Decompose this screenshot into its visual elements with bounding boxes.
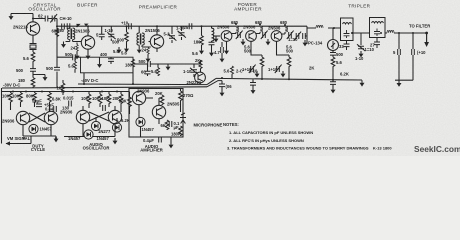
transistor Q3 2N1506 xyxy=(150,35,163,48)
ground base a xyxy=(214,36,219,42)
wire Q4 base xyxy=(213,35,220,37)
ground G8 xyxy=(146,56,151,62)
transistor Q13 2N2221 xyxy=(195,72,206,83)
ground G7 xyxy=(137,47,142,53)
ground G5 xyxy=(86,53,91,59)
ground G3 xyxy=(61,42,66,48)
wire PA out xyxy=(305,26,307,44)
capacitor osc coupling xyxy=(67,23,70,29)
capacitor pa bypass xyxy=(250,83,256,86)
ground G19 xyxy=(360,80,365,86)
wire Q6 collector xyxy=(282,32,285,34)
wire audio top xyxy=(2,91,129,93)
tank box 2 xyxy=(370,18,386,38)
wire ao cross xyxy=(83,106,115,121)
wire left border xyxy=(1,88,3,144)
wire cap row xyxy=(33,18,57,20)
trimmer CH-10 xyxy=(50,14,57,22)
inductor L2 series xyxy=(316,26,323,28)
wire Q3 collector xyxy=(156,26,158,35)
trimmer mid xyxy=(360,33,362,45)
capacitor 0.1uF xyxy=(169,121,172,127)
ground base b xyxy=(241,39,246,45)
trimmer coupling c xyxy=(287,31,294,39)
wire tripler rail xyxy=(353,32,427,34)
shield box buffer xyxy=(81,57,134,73)
wire Q4 collector xyxy=(231,32,236,34)
tank box 1 xyxy=(341,18,354,41)
lamp PC-134 xyxy=(328,40,339,51)
wire filter feed xyxy=(57,56,81,58)
ground G9 xyxy=(199,48,204,54)
wire right rail xyxy=(216,78,362,80)
wire out caps xyxy=(395,33,413,80)
wire arrow junction xyxy=(84,24,89,27)
transistor Q2 2N1306 xyxy=(81,36,94,49)
wire osc right branch xyxy=(56,19,58,89)
ground G1 xyxy=(9,14,14,20)
ground G11 xyxy=(220,56,225,62)
ground G28 xyxy=(224,48,229,54)
ground G17 xyxy=(397,80,402,86)
capacitor tr xyxy=(330,82,336,85)
terminal arrow TO FILTER xyxy=(426,33,428,42)
capacitor 27 xyxy=(376,38,378,49)
wire Q5 collector xyxy=(256,32,260,34)
inductor L1 xyxy=(212,28,214,41)
ground G27 xyxy=(303,40,308,46)
ground G2 xyxy=(43,75,48,81)
capacitor 5 out xyxy=(398,49,401,55)
wire box to rail xyxy=(84,68,133,85)
wire collector row xyxy=(134,63,201,65)
wire T1 xyxy=(66,26,82,41)
diode D5 1N457 xyxy=(136,117,145,126)
wire emitter chain xyxy=(33,50,45,78)
wire tripler feed xyxy=(307,27,341,29)
transistor Q11 xyxy=(132,91,145,104)
transistor Q7 2N936 xyxy=(16,111,29,124)
transistor Q8 2N936 xyxy=(44,111,57,124)
svg-text:SeekIC.com: SeekIC.com xyxy=(414,144,460,154)
transistor Q5 2N506 xyxy=(246,31,257,42)
ground G23 xyxy=(220,90,225,96)
ground G18 xyxy=(331,87,336,93)
trimmer coupling b xyxy=(261,31,268,39)
diode D3 xyxy=(112,123,121,132)
ground G26 xyxy=(169,142,174,148)
ground G7b xyxy=(124,46,129,52)
capacitor ao coupling xyxy=(103,105,106,111)
wire bus merge diagonal xyxy=(207,78,222,86)
wire Q2 collector xyxy=(87,26,89,36)
capacitor out xyxy=(303,33,306,39)
wire lamp xyxy=(332,28,334,87)
wire arrow junction xyxy=(76,24,81,27)
box audio amp xyxy=(129,89,183,138)
wire RF top rail xyxy=(57,25,307,27)
ground G29 xyxy=(117,47,122,53)
microphone jack xyxy=(180,112,186,124)
trimmer out xyxy=(294,32,301,40)
inductor L3 xyxy=(387,31,394,33)
transformer T2 xyxy=(137,33,139,45)
wire Q3 base xyxy=(149,41,151,43)
capacitor C06 xyxy=(219,84,225,87)
wire aa internal xyxy=(130,92,163,138)
capacitor 33 xyxy=(346,41,348,51)
transistor Q6 2N506 xyxy=(271,31,282,42)
diode D2 1N277 xyxy=(91,121,100,130)
transformer T1 xyxy=(68,28,70,40)
ground G6 xyxy=(99,57,101,61)
capacitor C on osc output xyxy=(62,24,65,30)
ground G4 xyxy=(75,53,80,59)
scan noise overlay xyxy=(0,0,1,1)
wire ao bottoms xyxy=(64,117,117,137)
resistor 6K aa xyxy=(165,120,169,130)
ground G13 xyxy=(281,71,286,77)
wire VM input xyxy=(6,136,31,144)
wire Q3 emitter xyxy=(156,48,158,52)
ground G16 xyxy=(359,51,364,57)
ground G25 xyxy=(113,138,118,144)
wire Q1 collector xyxy=(32,14,34,22)
transistor Q4 2N506 xyxy=(221,31,232,42)
wire T2 xyxy=(139,26,151,47)
wire PA emitters xyxy=(226,41,228,48)
ground G24 xyxy=(54,136,59,142)
ground G22 xyxy=(166,64,171,70)
capacitor +10 out xyxy=(412,49,415,55)
transistor Q1 2N2218 xyxy=(26,22,39,35)
diode D4 xyxy=(84,130,93,139)
wire crystal osc top xyxy=(11,13,33,15)
ground base c xyxy=(266,39,271,45)
transistor Q9 xyxy=(76,110,89,123)
transistor Q12 2N505 xyxy=(152,105,165,118)
capacitor L1 bypass xyxy=(209,42,215,45)
ground G10 xyxy=(209,50,214,56)
capacitor 500 lamp xyxy=(330,53,336,56)
wire mv emitters xyxy=(23,125,56,136)
crystal Y1 xyxy=(30,35,37,49)
ground G12 xyxy=(255,71,260,77)
diode D1 1N457 xyxy=(29,124,38,133)
wire cross couple xyxy=(29,113,45,122)
trimmer coupling a xyxy=(236,31,243,39)
trimmer em b xyxy=(275,65,282,73)
wire Q2 emitter xyxy=(87,49,89,53)
ground G30 xyxy=(251,88,256,94)
transistor Q10 xyxy=(108,110,121,123)
wire bus upper -40V xyxy=(78,83,207,86)
wire supply rail xyxy=(2,87,207,88)
trimmer em a xyxy=(249,65,256,73)
